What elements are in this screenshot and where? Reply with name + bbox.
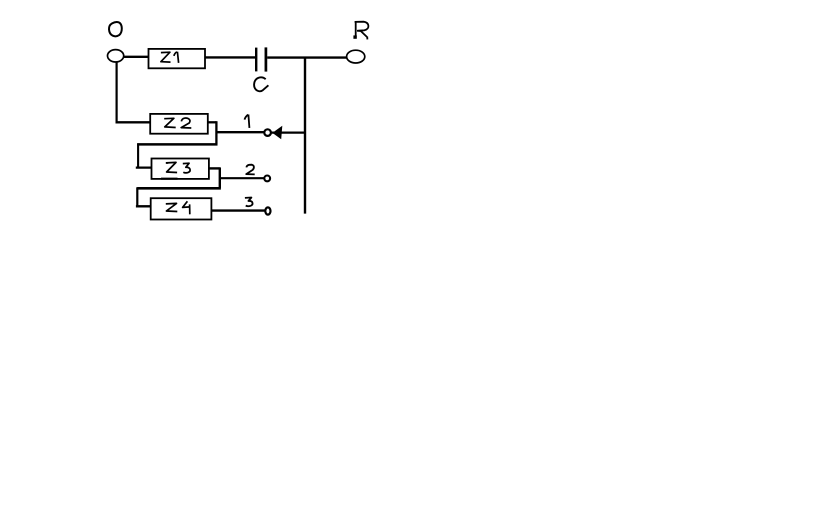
- node R label: [353, 22, 368, 40]
- node O label: [109, 22, 122, 36]
- wire into Z4: [136, 205, 151, 207]
- contact 3 circle: [265, 207, 270, 214]
- wire Z2 exit right: [208, 121, 217, 123]
- capacitor C plate 2: [265, 47, 268, 71]
- wire Z2 to Z3 horizontal: [137, 143, 217, 146]
- wire Z3 exit right: [209, 167, 220, 169]
- wire to Z2: [116, 121, 151, 123]
- resistor Z3: [152, 159, 209, 179]
- wire tap to contact 2: [220, 177, 265, 179]
- wire O down: [115, 61, 117, 122]
- label 1: [245, 115, 250, 128]
- wire wiper from bus: [271, 132, 305, 134]
- contact 1 circle: [264, 129, 271, 136]
- wire Z2 to Z3 vertical: [137, 143, 139, 167]
- label Z1: [161, 52, 179, 63]
- terminal R: [347, 50, 365, 63]
- label C: [254, 77, 268, 91]
- label Z3: [166, 162, 190, 173]
- wire Z1 to capacitor: [205, 56, 255, 58]
- wire Z2 jog down: [215, 121, 217, 144]
- wire Z3 to Z4 horizontal: [137, 187, 221, 190]
- resistor Z3 bottom thick segment: [161, 178, 178, 180]
- switch wiper arrow: [272, 126, 282, 140]
- resistor Z2: [150, 114, 208, 134]
- node junction / bus wire down: [304, 58, 306, 214]
- wire Z3 to Z4 vertical: [136, 187, 138, 206]
- label Z4: [166, 201, 190, 214]
- resistor Z4: [151, 198, 212, 219]
- wire tap to contact 3: [211, 209, 265, 211]
- resistor Z1: [149, 49, 206, 68]
- contact 2 circle: [264, 176, 270, 182]
- terminal O: [108, 50, 124, 62]
- wire O to Z1: [124, 56, 149, 58]
- capacitor C plate 1: [255, 48, 257, 72]
- wire tap to contact 1: [216, 131, 264, 133]
- label 2: [246, 165, 255, 175]
- label Z2: [164, 118, 191, 128]
- label 3: [245, 198, 253, 207]
- wire Z3 jog down: [219, 167, 221, 188]
- wire into Z3: [136, 166, 152, 168]
- wire capacitor to R: [267, 56, 347, 58]
